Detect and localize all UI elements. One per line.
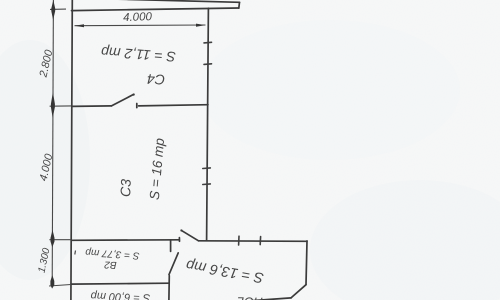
svg-text:HOL: HOL: [237, 294, 263, 300]
svg-text:C3: C3: [117, 179, 134, 198]
svg-text:B2: B2: [104, 259, 117, 270]
svg-text:4.000: 4.000: [123, 11, 153, 24]
svg-text:C4: C4: [146, 71, 165, 88]
